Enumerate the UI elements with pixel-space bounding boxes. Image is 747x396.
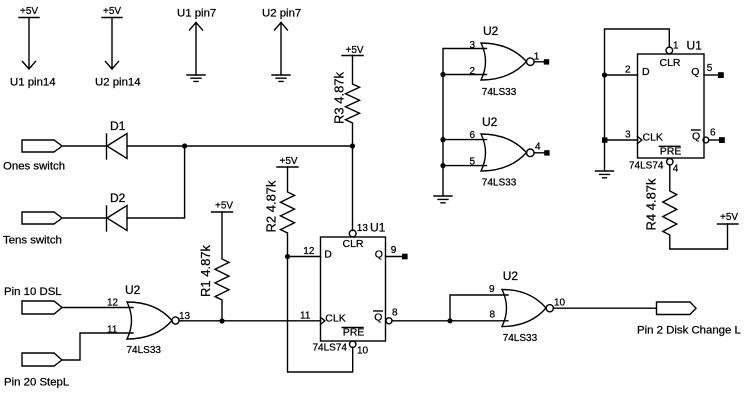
wire Pin20StepL to U2 pin11 [62, 333, 133, 360]
svg-text:CLR: CLR [660, 57, 681, 69]
svg-text:74LS74: 74LS74 [629, 161, 664, 172]
svg-text:Q: Q [692, 130, 700, 142]
flip-flop U1 74LS74 (centre) [300, 221, 398, 357]
svg-text:+5V: +5V [346, 45, 364, 56]
svg-text:2: 2 [470, 66, 476, 77]
svg-text:74LS74: 74LS74 [313, 343, 348, 354]
wire D node down to PRE pin 10 [288, 257, 353, 373]
net stub square pin 4 [544, 150, 549, 155]
wire gate input bus (pins 3,2,6,5 to ground) [443, 49, 487, 196]
svg-text:D: D [642, 66, 650, 78]
svg-text:U2 pin14: U2 pin14 [95, 77, 141, 89]
ground under gate bus [434, 196, 452, 203]
svg-text:74LS33: 74LS33 [482, 87, 517, 98]
wire pin1 stub [534, 61, 544, 63]
power symbol +5V (U2 pin14) [95, 6, 141, 89]
svg-text:CLK: CLK [325, 312, 345, 324]
diode D2 [107, 191, 128, 231]
net stub square pin 9 [402, 254, 408, 260]
wire R2 node to D pin 12 [288, 256, 321, 258]
wire Q pin 9 stub [386, 256, 403, 258]
connector Tens switch [3, 212, 62, 247]
svg-text:1: 1 [673, 41, 679, 52]
wire D pin 2 [605, 74, 638, 76]
svg-text:U1: U1 [687, 39, 703, 53]
connector Pin 20 StepL [4, 353, 69, 389]
svg-text:5: 5 [707, 63, 713, 74]
wire Qbar pin 8 to node B [392, 320, 450, 322]
svg-text:4: 4 [535, 142, 541, 153]
svg-text:U2: U2 [503, 269, 519, 283]
svg-text:11: 11 [107, 325, 118, 336]
svg-text:8: 8 [392, 308, 398, 319]
resistor R3 4.87k [332, 45, 364, 146]
nor gate U2 (pins 6,5 -> 4) 74LS33 [470, 115, 542, 189]
svg-text:R3 4.87k: R3 4.87k [332, 71, 347, 124]
svg-text:D1: D1 [110, 119, 126, 133]
svg-text:9: 9 [489, 284, 495, 295]
svg-text:U2: U2 [482, 115, 498, 129]
svg-text:Ones switch: Ones switch [3, 161, 65, 173]
connector Pin 2 Disk Change L [637, 302, 741, 337]
svg-text:+5V: +5V [215, 201, 233, 212]
svg-text:10: 10 [554, 298, 566, 309]
svg-text:+5V: +5V [20, 6, 38, 17]
svg-text:R4 4.87k: R4 4.87k [644, 178, 659, 231]
svg-text:4: 4 [673, 164, 679, 175]
svg-text:11: 11 [300, 311, 311, 322]
svg-text:PRE: PRE [660, 145, 682, 157]
junction dot pin6 bus [440, 137, 445, 142]
svg-text:12: 12 [303, 246, 315, 257]
net stub square pin 6 [719, 137, 725, 143]
ground symbol (U2 pin7) [262, 8, 301, 82]
svg-text:Q: Q [374, 311, 382, 323]
net stub square pin 5 [718, 72, 724, 78]
svg-text:3: 3 [470, 40, 476, 51]
svg-text:U2: U2 [483, 24, 499, 38]
power symbol +5V (U1 pin14) [10, 6, 56, 89]
svg-text:D2: D2 [110, 191, 126, 205]
svg-text:74LS33: 74LS33 [503, 333, 538, 344]
svg-text:1: 1 [534, 52, 540, 63]
junction dot D pin2 [602, 72, 607, 77]
resistor R2 4.87k [264, 156, 299, 257]
svg-text:13: 13 [357, 223, 369, 234]
svg-text:Pin 10 DSL: Pin 10 DSL [4, 286, 62, 298]
svg-text:74LS33: 74LS33 [482, 178, 517, 189]
net stub square pin 1 [544, 59, 549, 64]
svg-text:CLK: CLK [643, 132, 663, 144]
wire node B to gate pin 8 [450, 320, 508, 322]
svg-text:74LS33: 74LS33 [127, 345, 162, 356]
flip-flop U1 74LS74 (right) [625, 39, 716, 175]
wire Tens switch to D2 [62, 217, 106, 219]
nor gate U2 (pins 9,8 -> 10) 74LS33 [489, 269, 566, 344]
svg-text:3: 3 [625, 130, 631, 141]
node R3 junction dot [350, 143, 355, 148]
resistor R1 4.87k [198, 201, 233, 322]
wire gate13 output to U1 CLK [179, 320, 320, 322]
svg-text:R2 4.87k: R2 4.87k [264, 180, 279, 233]
svg-text:CLR: CLR [343, 238, 364, 250]
node B junction dot [447, 318, 452, 323]
wire node A to U1 CLR [352, 146, 354, 231]
connector Pin 10 DSL [4, 286, 62, 314]
wire pin4 stub [534, 152, 544, 154]
node R1/CLK junction dot [219, 318, 224, 323]
svg-text:6: 6 [710, 128, 716, 139]
wire D2 to node A [127, 146, 185, 218]
svg-text:Pin 20 StepL: Pin 20 StepL [4, 377, 69, 389]
svg-text:+5V: +5V [720, 212, 738, 223]
wire CLR feedback loop [605, 29, 670, 171]
wire node B loop to gate pin 9 [450, 295, 508, 321]
svg-text:8: 8 [490, 310, 496, 321]
wire Qbar pin 6 stub [709, 139, 719, 141]
wire Q pin 5 stub [704, 74, 718, 76]
svg-text:U1 pin7: U1 pin7 [177, 8, 216, 20]
svg-text:Tens switch: Tens switch [3, 235, 62, 247]
resistor R4 4.87k [644, 165, 728, 249]
svg-text:U2 pin7: U2 pin7 [262, 8, 301, 20]
nor gate U2 (pins 3,2 -> 1) 74LS33 [470, 24, 540, 98]
wire CLK pin 3 [605, 139, 638, 141]
svg-text:Pin 2 Disk Change L: Pin 2 Disk Change L [637, 325, 741, 337]
svg-text:2: 2 [625, 65, 631, 76]
wire D1 to node A [127, 145, 353, 147]
diode D1 [107, 119, 128, 159]
svg-text:Q: Q [691, 66, 699, 78]
node R2/D junction dot [285, 254, 290, 259]
wire gate10 output to Pin 2 connector [553, 307, 656, 309]
svg-text:Q: Q [375, 249, 383, 261]
svg-text:+5V: +5V [103, 6, 121, 17]
svg-text:+5V: +5V [280, 156, 298, 167]
svg-text:9: 9 [391, 245, 397, 256]
wire Pin10DSL to U2 pin12 [62, 307, 133, 309]
junction dot pin2 bus [440, 72, 445, 77]
ground right flip-flop [596, 171, 614, 178]
power symbol +5V (R4) [718, 212, 739, 224]
svg-text:D: D [324, 249, 332, 261]
svg-text:12: 12 [107, 298, 119, 309]
svg-text:10: 10 [357, 346, 369, 357]
junction dot pin5 bus [440, 163, 445, 168]
svg-text:U1 pin14: U1 pin14 [10, 77, 56, 89]
svg-text:R1 4.87k: R1 4.87k [198, 244, 213, 297]
node A junction dot [182, 143, 187, 148]
ground symbol (U1 pin7) [177, 8, 216, 82]
wire Ones switch to D1 [62, 145, 106, 147]
connector Ones switch [3, 140, 65, 173]
nor gate U2 (pins 12,11 -> 13) 74LS33 [107, 283, 191, 356]
svg-text:U1: U1 [370, 221, 386, 235]
junction square CLK pin3 [602, 137, 607, 142]
svg-text:U2: U2 [125, 283, 141, 297]
